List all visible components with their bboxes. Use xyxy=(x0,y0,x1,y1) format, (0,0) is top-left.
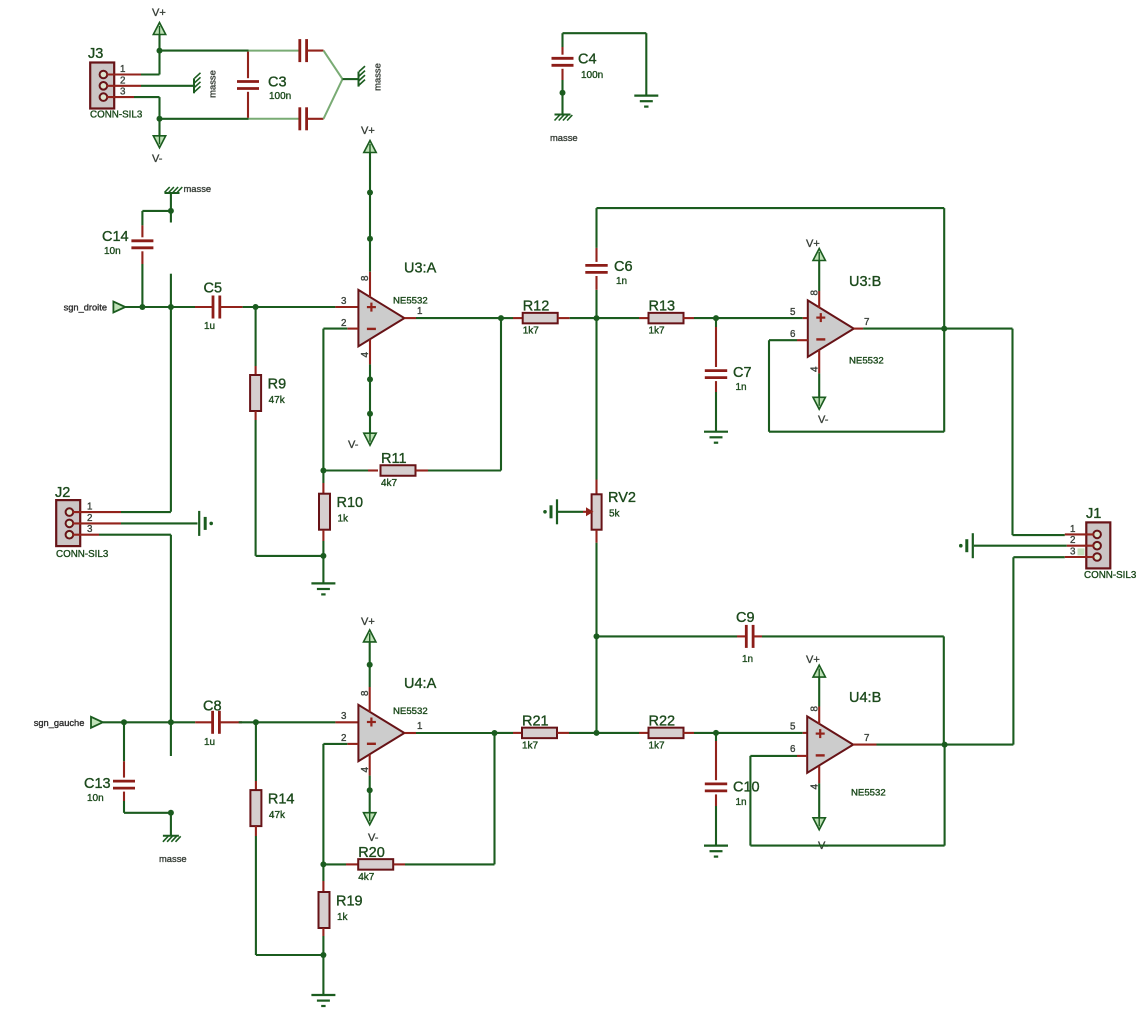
svg-text:4k7: 4k7 xyxy=(358,872,375,883)
svg-text:NE5532: NE5532 xyxy=(393,706,428,717)
svg-text:R13: R13 xyxy=(649,299,676,315)
svg-text:C5: C5 xyxy=(204,281,223,297)
svg-text:1k7: 1k7 xyxy=(649,740,666,751)
svg-text:1k7: 1k7 xyxy=(649,326,666,337)
svg-text:1u: 1u xyxy=(204,737,215,748)
svg-text:47k: 47k xyxy=(269,810,286,821)
svg-text:3: 3 xyxy=(341,711,347,722)
svg-text:R19: R19 xyxy=(336,894,363,910)
svg-text:2: 2 xyxy=(120,75,125,86)
svg-text:masse: masse xyxy=(184,183,212,194)
svg-text:V+: V+ xyxy=(152,7,166,19)
svg-text:47k: 47k xyxy=(269,395,286,406)
svg-text:1n: 1n xyxy=(736,382,747,393)
svg-text:1: 1 xyxy=(417,306,422,317)
svg-text:1n: 1n xyxy=(736,797,747,808)
svg-text:R20: R20 xyxy=(358,845,385,861)
svg-text:5: 5 xyxy=(790,307,796,318)
svg-text:3: 3 xyxy=(87,524,93,535)
svg-text:RV2: RV2 xyxy=(608,490,636,506)
svg-text:sgn_gauche: sgn_gauche xyxy=(34,718,85,728)
svg-text:1k: 1k xyxy=(337,912,349,923)
svg-text:1: 1 xyxy=(87,502,92,513)
svg-text:6: 6 xyxy=(790,329,796,340)
svg-text:1n: 1n xyxy=(742,654,753,665)
svg-text:100n: 100n xyxy=(581,70,603,81)
svg-text:CONN-SIL3: CONN-SIL3 xyxy=(1084,570,1137,581)
svg-text:C3: C3 xyxy=(268,75,287,91)
svg-text:C6: C6 xyxy=(614,259,633,275)
svg-text:R11: R11 xyxy=(381,451,407,467)
svg-text:V+: V+ xyxy=(806,654,820,666)
svg-text:NE5532: NE5532 xyxy=(393,296,428,307)
svg-text:U4:A: U4:A xyxy=(404,676,437,692)
svg-text:J3: J3 xyxy=(88,46,103,62)
svg-text:U4:B: U4:B xyxy=(849,690,881,706)
svg-text:1u: 1u xyxy=(204,321,215,332)
svg-text:NE5532: NE5532 xyxy=(851,788,886,799)
svg-text:masse: masse xyxy=(372,63,383,91)
svg-text:V+: V+ xyxy=(361,616,375,628)
svg-text:3: 3 xyxy=(1070,547,1076,558)
svg-text:3: 3 xyxy=(341,296,347,307)
svg-text:R21: R21 xyxy=(522,713,549,729)
svg-text:U3:B: U3:B xyxy=(849,274,881,290)
svg-text:4k7: 4k7 xyxy=(381,478,398,489)
svg-text:2: 2 xyxy=(1070,535,1075,546)
svg-text:J1: J1 xyxy=(1086,506,1101,522)
svg-text:CONN-SIL3: CONN-SIL3 xyxy=(56,549,109,560)
svg-text:1k7: 1k7 xyxy=(523,326,540,337)
svg-text:R14: R14 xyxy=(268,792,295,808)
svg-text:2: 2 xyxy=(341,318,346,329)
svg-text:masse: masse xyxy=(550,132,578,143)
svg-text:U3:A: U3:A xyxy=(404,261,437,277)
svg-text:1: 1 xyxy=(120,64,125,75)
svg-text:2: 2 xyxy=(87,513,92,524)
svg-text:V+: V+ xyxy=(806,238,820,250)
svg-text:CONN-SIL3: CONN-SIL3 xyxy=(90,110,143,121)
svg-text:R12: R12 xyxy=(523,299,550,315)
svg-text:R10: R10 xyxy=(337,495,364,511)
svg-text:V-: V- xyxy=(368,832,379,844)
svg-text:V-: V- xyxy=(348,439,359,451)
svg-text:V-: V- xyxy=(152,153,163,165)
svg-text:1n: 1n xyxy=(616,276,627,287)
svg-text:1k: 1k xyxy=(338,514,350,525)
svg-text:5: 5 xyxy=(790,722,796,733)
svg-text:1: 1 xyxy=(1070,524,1075,535)
svg-text:1: 1 xyxy=(417,721,422,732)
svg-text:NE5532: NE5532 xyxy=(849,356,884,367)
svg-text:C9: C9 xyxy=(736,610,755,626)
svg-text:1k7: 1k7 xyxy=(522,740,539,751)
svg-text:masse: masse xyxy=(159,853,187,864)
svg-text:10n: 10n xyxy=(87,793,104,804)
svg-text:J2: J2 xyxy=(55,485,70,501)
svg-text:C4: C4 xyxy=(578,52,597,68)
svg-text:7: 7 xyxy=(864,733,869,744)
svg-text:V-: V- xyxy=(818,414,829,426)
svg-text:sgn_droite: sgn_droite xyxy=(64,303,107,313)
svg-text:C14: C14 xyxy=(102,229,129,245)
svg-text:2: 2 xyxy=(341,733,346,744)
svg-text:C8: C8 xyxy=(203,699,222,715)
svg-text:7: 7 xyxy=(864,317,869,328)
svg-text:R9: R9 xyxy=(268,377,287,393)
svg-text:V+: V+ xyxy=(361,125,375,137)
svg-text:10n: 10n xyxy=(104,246,121,257)
svg-text:3: 3 xyxy=(120,87,126,98)
svg-text:masse: masse xyxy=(207,70,218,98)
svg-text:R22: R22 xyxy=(649,713,676,729)
svg-text:100n: 100n xyxy=(269,91,291,102)
svg-text:6: 6 xyxy=(790,744,796,755)
svg-text:C7: C7 xyxy=(733,365,752,381)
svg-text:5k: 5k xyxy=(609,509,621,520)
svg-text:C13: C13 xyxy=(84,776,111,792)
svg-text:C10: C10 xyxy=(733,780,760,796)
